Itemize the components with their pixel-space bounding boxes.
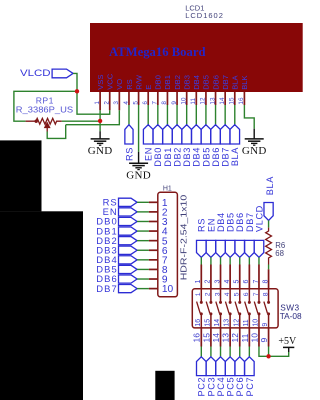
svg-text:R/W: R/W — [134, 74, 143, 90]
svg-text:7: 7 — [253, 280, 260, 284]
wire LCD pin 13 to flag DB6 — [215, 105, 217, 125]
LCD pin 7 stub — [157, 92, 159, 105]
flag DB0 (pointing up) — [153, 125, 163, 144]
svg-text:5: 5 — [132, 101, 139, 105]
svg-text:TA-08: TA-08 — [280, 311, 302, 321]
wire +5V rail — [269, 352, 289, 356]
svg-text:DB7: DB7 — [221, 147, 231, 167]
H1 pin 4 stub — [149, 230, 158, 232]
switch element 6 of SW3 — [248, 289, 250, 301]
wire DB3 to H1 pin 6 — [137, 249, 149, 251]
LCD pin 4 stub — [128, 92, 130, 105]
LCD pin 2 stub — [109, 92, 111, 110]
H1 pin 8 stub — [149, 268, 158, 270]
svg-text:68: 68 — [275, 249, 284, 258]
LCD pin 11 stub — [195, 92, 197, 105]
flag DB3 (pointing right) — [119, 246, 138, 254]
H1 pin 5 stub — [149, 240, 158, 242]
svg-text:DB6: DB6 — [235, 212, 245, 232]
ground GND (pin5) — [129, 152, 148, 170]
svg-text:RS: RS — [125, 79, 134, 90]
flag DB1 (pointing up) — [163, 125, 173, 144]
svg-text:PC5: PC5 — [226, 377, 236, 397]
SW3 pin 3 stub — [220, 265, 222, 289]
flag PC2 (pointing up) — [197, 357, 207, 376]
switch element 1 of SW3 — [200, 289, 202, 301]
switch element 2 of SW3 — [210, 289, 212, 301]
wire SW3 pin 9 to +5V rail — [268, 347, 270, 357]
svg-text:LCD1602: LCD1602 — [185, 11, 224, 20]
svg-text:BLK: BLK — [240, 75, 249, 89]
wire LCD pin 15 to flag BLA — [234, 105, 236, 125]
svg-text:DB1: DB1 — [163, 147, 173, 167]
svg-text:16: 16 — [192, 333, 202, 343]
svg-text:2: 2 — [104, 101, 111, 105]
LCD pin 12 stub — [205, 92, 207, 105]
RP1 wiper arrow — [45, 123, 50, 128]
wire DB7 to H1 pin 10 — [137, 288, 149, 290]
flag EN (pointing right) — [119, 208, 138, 216]
svg-text:VCC: VCC — [106, 73, 115, 90]
svg-text:DB2: DB2 — [173, 75, 182, 90]
SW3 pin 2 stub — [210, 265, 212, 289]
wire node A down to VCC line — [77, 91, 110, 114]
svg-text:6: 6 — [142, 101, 149, 105]
svg-text:14: 14 — [219, 97, 226, 105]
svg-text:9: 9 — [171, 101, 178, 105]
LCD module U? board rectangle — [90, 23, 303, 92]
wire LCD pin 10 to flag DB3 — [186, 105, 188, 125]
svg-text:16: 16 — [238, 97, 245, 105]
H1 pin 7 stub — [149, 259, 158, 261]
svg-text:DB5: DB5 — [201, 147, 211, 167]
wire LCD pin 9 to flag DB2 — [176, 105, 178, 125]
LCD pin 8 stub — [166, 92, 168, 105]
svg-text:DB4: DB4 — [216, 212, 226, 232]
svg-text:DB4: DB4 — [192, 75, 201, 90]
svg-text:EN: EN — [144, 147, 154, 161]
flag DB0 (pointing right) — [119, 217, 138, 225]
svg-text:15: 15 — [201, 333, 211, 343]
wire SW3 pin 10 to +5V rail — [259, 347, 269, 357]
svg-text:14: 14 — [211, 333, 221, 343]
svg-text:11: 11 — [190, 98, 197, 105]
svg-text:R_3386P_US: R_3386P_US — [16, 104, 74, 114]
wire DB4 to H1 pin 7 — [137, 259, 149, 261]
wire EN to H1 pin 2 — [137, 211, 149, 213]
wire LCD pin 12 to flag DB5 — [205, 105, 207, 125]
redaction block lower-left — [0, 211, 83, 400]
flag EN (pointing up) — [143, 125, 153, 144]
svg-text:4: 4 — [123, 101, 130, 105]
svg-text:10: 10 — [180, 97, 187, 105]
svg-text:HDR-F-2.54_1x10: HDR-F-2.54_1x10 — [179, 195, 189, 281]
svg-text:10: 10 — [162, 284, 174, 295]
LCD pin 3 stub — [118, 92, 120, 110]
wire RP1 wiper to VO net — [47, 125, 65, 139]
svg-text:VLCD: VLCD — [20, 68, 51, 78]
svg-text:PC6: PC6 — [235, 377, 245, 397]
svg-text:5: 5 — [234, 280, 241, 284]
wire LCD pin 6 to flag EN — [147, 105, 149, 125]
flag DB7 (pointing up) — [220, 125, 230, 144]
flag DB4 (pointing down) — [216, 240, 226, 257]
svg-text:12: 12 — [230, 333, 240, 343]
potentiometer RP1 zigzag body — [26, 118, 62, 124]
wire DB4 to SW3 pin 3 — [220, 257, 222, 264]
wire SW3 pin 12 to flag PC6 — [239, 347, 241, 357]
flag DB2 (pointing up) — [172, 125, 182, 144]
SW3 pin 1 stub — [200, 265, 202, 289]
svg-text:H1: H1 — [163, 185, 172, 192]
junction dot on VSS column (RP1) — [98, 119, 102, 123]
wire DB6 to H1 pin 9 — [137, 278, 149, 280]
svg-text:BLA: BLA — [231, 75, 240, 90]
H1 pin 1 stub — [149, 201, 158, 203]
SW3 pin 5 stub — [239, 265, 241, 289]
svg-text:DB3: DB3 — [182, 147, 192, 167]
switch element 5 of SW3 — [239, 289, 241, 301]
svg-text:VLCD: VLCD — [254, 205, 264, 232]
H1 pin 6 stub — [149, 249, 158, 251]
flag DB6 (pointing up) — [211, 125, 221, 144]
svg-text:DB1: DB1 — [163, 75, 172, 90]
LCD pin 10 stub — [186, 92, 188, 105]
wire DB2 to H1 pin 5 — [137, 240, 149, 242]
svg-text:DB7: DB7 — [221, 75, 230, 90]
ground GND (pin16 BLK) — [245, 129, 264, 146]
svg-text:4: 4 — [224, 280, 231, 284]
svg-text:15: 15 — [229, 97, 236, 105]
wire RP1 right lead to pin1 column junction — [62, 120, 100, 122]
wire pin5 R/W down — [138, 105, 140, 152]
H1 pin 10 stub — [149, 288, 158, 290]
svg-text:7: 7 — [152, 101, 159, 105]
LCD pin 1 stub — [99, 92, 101, 110]
flag DB1 (pointing right) — [119, 227, 138, 235]
svg-text:1: 1 — [195, 280, 202, 284]
svg-text:+5V: +5V — [278, 336, 297, 347]
wire DB1 to H1 pin 4 — [137, 230, 149, 232]
flag EN (pointing down) — [206, 240, 216, 257]
flag DB5 (pointing down) — [225, 240, 235, 257]
wire BLA to R6 — [268, 220, 270, 227]
wire SW3 pin 11 to flag PC7 — [248, 347, 250, 357]
svg-text:VO: VO — [115, 79, 124, 90]
wire RS to H1 pin 1 — [137, 201, 149, 203]
LCD pin 6 stub — [147, 92, 149, 105]
junction dot node A (VLCD) — [75, 89, 79, 93]
svg-text:DB0: DB0 — [154, 75, 163, 90]
svg-text:BLA: BLA — [265, 176, 275, 195]
svg-text:PC2: PC2 — [197, 377, 207, 397]
flag BLA (pointing up) — [230, 125, 240, 144]
flag DB6 (pointing right) — [119, 275, 138, 283]
wire SW3 pin 15 to flag PC3 — [210, 347, 212, 357]
flag PC7 (pointing up) — [245, 357, 255, 376]
svg-text:VSS: VSS — [96, 75, 105, 90]
flag VLCD (pointing down) — [254, 240, 264, 257]
ground GND (pin1 VSS) — [91, 131, 110, 145]
svg-text:BLA: BLA — [230, 147, 240, 166]
svg-text:1: 1 — [94, 101, 101, 105]
LCD pin 5 stub — [138, 92, 140, 105]
wire DB0 to H1 pin 3 — [137, 220, 149, 222]
wire R6 to SW3 pin 8 — [268, 265, 270, 270]
wire SW3 pin 14 to flag PC4 — [220, 347, 222, 357]
flag VLCD (pointing right) — [52, 69, 73, 78]
svg-text:PC7: PC7 — [245, 377, 255, 397]
flag DB2 (pointing right) — [119, 237, 138, 245]
SW3 pin 6 stub — [248, 265, 250, 289]
flag DB3 (pointing up) — [182, 125, 192, 144]
svg-text:DB7: DB7 — [245, 212, 255, 232]
SW3 pin 8 stub — [268, 269, 270, 289]
wire pin3 VO down-left to pin1 column (wiper net) — [66, 110, 120, 124]
wire RS to SW3 pin 1 — [200, 257, 202, 264]
flag DB4 (pointing right) — [119, 256, 138, 264]
svg-text:9: 9 — [259, 338, 269, 343]
svg-text:13: 13 — [209, 97, 216, 105]
svg-text:6: 6 — [243, 280, 250, 284]
LCD pin 9 stub — [176, 92, 178, 105]
LCD pin 15 stub — [234, 92, 236, 105]
svg-text:10: 10 — [249, 333, 259, 343]
connector H1 body — [158, 192, 178, 296]
redaction block upper-left — [0, 140, 42, 211]
svg-text:GND: GND — [242, 145, 267, 157]
wire SW3 pin 13 to flag PC5 — [229, 347, 231, 357]
wire pin2 VCC down-left to pin1 column — [100, 110, 110, 114]
svg-text:EN: EN — [206, 218, 216, 232]
flag DB6 (pointing down) — [235, 240, 245, 257]
svg-text:DB5: DB5 — [226, 212, 236, 232]
H1 pin 9 stub — [149, 278, 158, 280]
flag DB5 (pointing up) — [201, 125, 211, 144]
switch element 3 of SW3 — [220, 289, 222, 301]
flag BLA (pointing down) — [264, 203, 273, 221]
svg-text:11: 11 — [240, 333, 250, 342]
flag DB7 (pointing right) — [119, 285, 138, 293]
svg-text:DB2: DB2 — [172, 147, 182, 167]
wire LCD pin 7 to flag DB0 — [157, 105, 159, 125]
svg-text:12: 12 — [200, 97, 207, 105]
RP1 left terminal dot — [35, 120, 38, 123]
svg-text:DB3: DB3 — [182, 75, 191, 90]
redaction block bottom-middle — [155, 371, 174, 400]
SW3 pin 4 stub — [229, 265, 231, 289]
svg-text:PC4: PC4 — [216, 377, 226, 397]
svg-text:ATMega16 Board: ATMega16 Board — [109, 44, 206, 59]
wire VLCD to SW3 pin 7 — [258, 257, 260, 264]
wire SW3 pin 16 to flag PC2 — [200, 347, 202, 357]
flag PC5 (pointing up) — [225, 357, 235, 376]
flag DB5 (pointing right) — [119, 265, 138, 273]
switch element 4 of SW3 — [229, 289, 231, 301]
svg-text:DB4: DB4 — [192, 147, 202, 167]
wire node A left + frame down to RP1 left lead — [14, 91, 77, 121]
wire VLCD flag to node A — [73, 73, 77, 91]
svg-text:E: E — [144, 85, 153, 90]
H1 pin 3 stub — [149, 220, 158, 222]
resistor R6 — [266, 228, 272, 265]
flag PC4 (pointing up) — [216, 357, 226, 376]
power symbol +5V — [288, 347, 290, 352]
switch element 7 of SW3 — [258, 289, 260, 301]
svg-text:8: 8 — [161, 101, 168, 105]
svg-text:RS: RS — [197, 218, 207, 232]
LCD pin 13 stub — [215, 92, 217, 105]
svg-text:13: 13 — [221, 333, 231, 343]
flag RS (pointing down) — [197, 240, 207, 257]
svg-text:2: 2 — [205, 280, 212, 284]
flag PC6 (pointing up) — [235, 357, 245, 376]
wire LCD pin 4 to flag RS — [128, 105, 130, 125]
svg-text:8: 8 — [262, 280, 269, 284]
flag PC3 (pointing up) — [206, 357, 216, 376]
wire LCD pin 14 to flag DB7 — [224, 105, 226, 125]
node VSS net: pin1 down to GND — [99, 110, 101, 131]
LCD pin 16 stub — [243, 92, 245, 105]
svg-text:GND: GND — [126, 170, 151, 182]
svg-text:RS: RS — [124, 147, 134, 161]
switch element 8 of SW3 — [268, 289, 270, 301]
flag DB4 (pointing up) — [192, 125, 202, 144]
svg-text:DB7: DB7 — [96, 283, 118, 294]
flag RS (pointing right) — [119, 198, 138, 206]
wire pin16 BLK to GND — [244, 105, 254, 129]
switch SW3 body — [192, 289, 278, 328]
wire LCD pin 11 to flag DB4 — [195, 105, 197, 125]
wire LCD pin 8 to flag DB1 — [166, 105, 168, 125]
svg-text:PC3: PC3 — [206, 377, 216, 397]
junction dot +5V rail — [266, 354, 270, 358]
flag DB7 (pointing down) — [245, 240, 255, 257]
wire DB7 to SW3 pin 6 — [248, 257, 250, 264]
LCD pin 14 stub — [224, 92, 226, 105]
H1 pin 2 stub — [149, 211, 158, 213]
wire DB6 to SW3 pin 5 — [239, 257, 241, 264]
svg-text:3: 3 — [113, 101, 120, 105]
svg-text:GND: GND — [88, 145, 113, 157]
svg-text:DB5: DB5 — [202, 75, 211, 90]
wire DB5 to H1 pin 8 — [137, 268, 149, 270]
wire DB5 to SW3 pin 4 — [229, 257, 231, 264]
svg-text:3: 3 — [214, 280, 221, 284]
svg-text:DB6: DB6 — [211, 75, 220, 90]
svg-text:DB6: DB6 — [211, 147, 221, 167]
svg-text:DB0: DB0 — [153, 147, 163, 167]
SW3 pin 7 stub — [258, 265, 260, 289]
wire EN to SW3 pin 2 — [210, 257, 212, 264]
flag RS (pointing up) — [125, 125, 133, 144]
